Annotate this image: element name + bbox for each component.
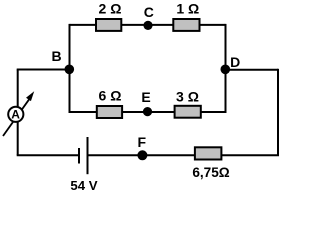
svg-text:D: D <box>230 54 240 70</box>
ammeter arrow <box>3 99 30 136</box>
wire: node D to right edge <box>226 69 279 71</box>
svg-text:C: C <box>144 4 154 20</box>
svg-text:F: F <box>138 134 147 150</box>
node E <box>143 107 152 116</box>
svg-text:6 Ω: 6 Ω <box>99 88 122 104</box>
node D <box>221 65 231 75</box>
resistor R1 2 ohm <box>96 19 121 31</box>
ammeter A1 circle <box>8 107 23 122</box>
svg-text:B: B <box>51 48 61 64</box>
svg-text:6,75Ω: 6,75Ω <box>192 165 229 180</box>
wire: top-left horizontal to node B <box>17 69 70 71</box>
svg-text:A: A <box>11 108 20 122</box>
svg-text:3 Ω: 3 Ω <box>176 89 199 105</box>
resistor R2 1 ohm <box>173 19 199 31</box>
wire: vertical through node D (top rail to middle rail) <box>225 24 227 113</box>
wire: top rail B to D <box>70 24 226 26</box>
wire: right vertical <box>277 69 279 155</box>
svg-text:E: E <box>141 89 150 105</box>
resistor R3 6 ohm <box>97 106 122 118</box>
wire: middle rail B to D <box>70 111 226 113</box>
resistor R5 6.75 ohm <box>195 147 222 159</box>
battery 54 V: long plate <box>87 137 89 174</box>
resistor R4 3 ohm <box>175 106 201 118</box>
wire: bottom rail right (battery to right edge) <box>88 154 280 156</box>
svg-text:1 Ω: 1 Ω <box>176 1 199 17</box>
node C <box>143 21 152 30</box>
node F <box>137 150 147 160</box>
node B <box>65 65 75 75</box>
wire: vertical through node B (top rail to middle rail) <box>69 24 71 113</box>
wire: bottom rail left (to battery) <box>17 154 79 156</box>
wire: left vertical (ammeter branch) <box>17 70 19 156</box>
svg-text:54 V: 54 V <box>70 178 97 193</box>
battery 54 V: short plate <box>78 148 80 164</box>
svg-text:2 Ω: 2 Ω <box>99 1 122 17</box>
